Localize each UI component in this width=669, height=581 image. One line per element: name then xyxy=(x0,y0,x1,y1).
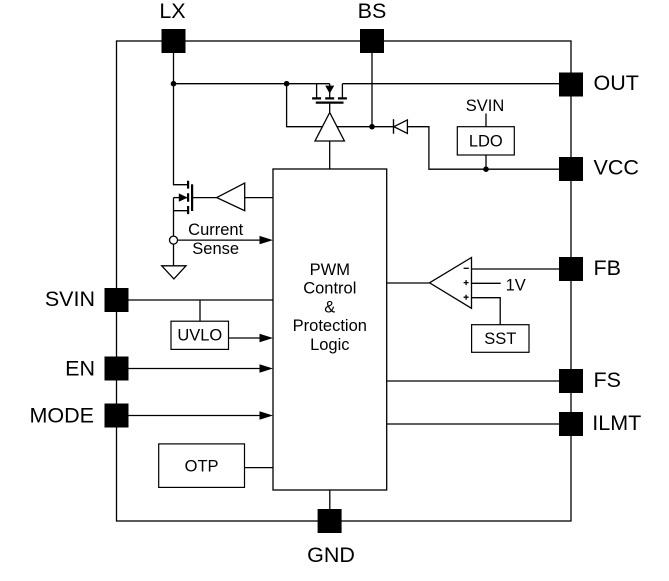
junction node driver supply xyxy=(284,81,290,87)
arrowhead UVLO into PWM xyxy=(260,334,274,342)
wire MODE to PWM xyxy=(117,415,262,417)
svg-text:UVLO: UVLO xyxy=(177,327,222,345)
PWM Control & Protection Logic block U1 xyxy=(273,169,387,490)
svg-text:Current: Current xyxy=(188,221,243,239)
diode D1 xyxy=(394,119,408,134)
gate driver U3 (low side, points left) xyxy=(217,183,245,211)
wire SVIN stub above LDO xyxy=(485,114,487,127)
wire PWM to GND pin xyxy=(329,490,331,510)
junction node LDO/VCC xyxy=(483,166,489,172)
OTP block xyxy=(159,444,245,488)
wire SST stub xyxy=(472,298,501,325)
pin OUT xyxy=(559,73,583,97)
UVLO block xyxy=(171,321,229,349)
wire OTP to PWM xyxy=(245,467,274,469)
pin BS xyxy=(360,29,384,53)
gate driver U2 (high side, points up) xyxy=(315,113,344,142)
svg-text:ILMT: ILMT xyxy=(592,411,641,435)
current sense circle xyxy=(170,236,178,244)
svg-text:&: & xyxy=(324,298,335,316)
transistor M2 body arrow xyxy=(174,197,188,199)
wire ILMT line xyxy=(387,423,559,425)
ground symbol xyxy=(162,266,186,279)
pin FB xyxy=(559,257,583,281)
LDO block xyxy=(457,127,514,155)
transistor M1 body arrow xyxy=(329,84,331,98)
junction node BS/diode xyxy=(369,124,375,130)
svg-text:LDO: LDO xyxy=(469,133,503,151)
svg-text:BS: BS xyxy=(358,0,387,23)
arrowhead current sense into PWM xyxy=(260,236,274,244)
transistor M2 gate plate xyxy=(191,184,193,211)
wire BS node to diode cathode xyxy=(372,126,394,128)
svg-text:LX: LX xyxy=(159,0,185,23)
wire low-side FET source down to current sense xyxy=(174,198,188,237)
svg-text:FS: FS xyxy=(594,368,621,392)
svg-text:EN: EN xyxy=(65,357,95,381)
transistor M1 gate plate xyxy=(316,101,344,103)
comparator plus sign middle xyxy=(464,280,469,285)
wire top FET right lead xyxy=(341,84,343,98)
pin MODE xyxy=(105,404,129,428)
wire current sense to ground symbol xyxy=(173,244,175,266)
pin EN xyxy=(105,357,129,381)
wire low-side gate line xyxy=(192,197,217,199)
wire UVLO drop xyxy=(199,300,201,321)
svg-text:FB: FB xyxy=(594,256,621,280)
chip outline border xyxy=(117,41,572,521)
svg-text:OTP: OTP xyxy=(185,458,219,476)
pin ILMT xyxy=(559,412,583,436)
label Current Sense xyxy=(188,221,243,258)
arrowhead MODE into PWM xyxy=(260,411,274,419)
junction node at LX rail xyxy=(171,81,177,87)
wire low-side driver input xyxy=(245,197,273,199)
svg-text:SST: SST xyxy=(484,330,516,348)
wire SVIN pin to PWM xyxy=(117,299,273,301)
wire FB input xyxy=(472,268,560,270)
arrowhead EN into PWM xyxy=(260,364,274,372)
wire main rail LX to top FET xyxy=(174,83,330,85)
svg-text:VCC: VCC xyxy=(594,155,639,179)
wire UVLO output xyxy=(229,337,263,339)
pin SVIN xyxy=(105,288,129,312)
svg-text:MODE: MODE xyxy=(30,404,95,428)
svg-text:Sense: Sense xyxy=(192,240,239,258)
svg-text:PWM: PWM xyxy=(310,261,350,279)
pin FS xyxy=(559,369,583,393)
pin LX xyxy=(162,29,186,53)
svg-text:Protection: Protection xyxy=(293,317,367,335)
svg-text:SVIN: SVIN xyxy=(466,97,505,115)
wire EN to PWM xyxy=(117,368,262,370)
comparator plus sign bottom xyxy=(464,295,469,300)
wire FS line xyxy=(387,380,559,382)
wire 1V reference stub xyxy=(472,282,501,284)
pin GND xyxy=(318,509,342,533)
SST block xyxy=(472,325,529,353)
wire diode anode to VCC rail xyxy=(407,127,559,170)
comparator minus sign xyxy=(464,267,469,269)
svg-text:SVIN: SVIN xyxy=(45,287,95,311)
wire LDO output stub xyxy=(485,155,487,169)
wire gate driver to PWM box xyxy=(329,141,331,169)
svg-text:Logic: Logic xyxy=(310,336,349,354)
comparator U4 error amp xyxy=(430,258,472,309)
wire top FET source to OUT xyxy=(342,83,559,85)
wire comparator output to PWM xyxy=(387,282,430,284)
transistor M1 gate stub xyxy=(329,104,331,113)
transistor M2 low-side FET channel bars xyxy=(188,181,192,214)
svg-text:OUT: OUT xyxy=(594,71,639,95)
svg-text:1V: 1V xyxy=(506,276,526,294)
svg-text:GND: GND xyxy=(307,543,355,567)
svg-text:Control: Control xyxy=(303,280,356,298)
wire LX drop to low-side FET drain xyxy=(174,53,188,185)
wire BS pin drop xyxy=(371,53,373,127)
wire top FET left lead xyxy=(316,84,318,98)
wire BS driver supply drop xyxy=(287,84,372,127)
transistor M1 top FET channel bars xyxy=(312,98,347,102)
pin VCC xyxy=(559,157,583,181)
wire current sense to PWM xyxy=(178,239,263,241)
